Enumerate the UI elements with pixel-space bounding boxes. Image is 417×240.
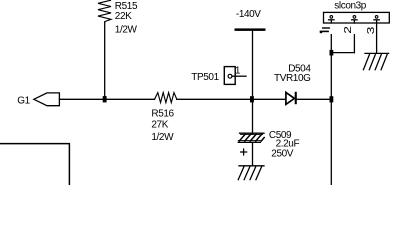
wire R515 to main node xyxy=(104,22,106,99)
svg-text:slcon3p: slcon3p xyxy=(334,1,367,12)
svg-text:TP501: TP501 xyxy=(191,72,219,83)
pin number 1 xyxy=(320,27,330,33)
svg-text:G1: G1 xyxy=(17,96,30,107)
junction dot pin1/pin2 tee xyxy=(330,50,334,56)
pin 2 of slcon3p xyxy=(353,21,355,24)
wire G1 to R516 xyxy=(59,98,154,100)
node G1 off-page connector xyxy=(34,93,60,106)
ground under C509 xyxy=(239,165,264,167)
pin 3 of slcon3p xyxy=(376,21,378,54)
pin number 3 xyxy=(365,26,377,34)
svg-text:1/2W: 1/2W xyxy=(151,132,174,143)
svg-text:-140V: -140V xyxy=(236,9,261,20)
capacitor C509 xyxy=(240,132,265,134)
ground under pin 3 xyxy=(365,52,389,54)
pin 1 of slcon3p xyxy=(330,21,332,24)
wire -140V rail down to main node and C509 xyxy=(252,31,254,133)
resistor R515 xyxy=(98,0,111,22)
junction dot at vertical bus main node xyxy=(330,96,334,102)
wire pin2 down to tee xyxy=(353,35,355,53)
junction dot at -140V/C509 tee xyxy=(250,96,254,102)
wire pin1 down the vertical bus to bottom edge xyxy=(330,35,332,185)
wire tee between pin1 bus and pin2 xyxy=(331,52,354,54)
junction dot at R515 tee xyxy=(103,96,107,102)
svg-text:250V: 250V xyxy=(271,148,293,159)
diode D504 xyxy=(286,92,295,104)
resistor R516 xyxy=(155,93,177,103)
svg-text:22K: 22K xyxy=(115,11,132,22)
svg-text:3: 3 xyxy=(365,26,377,34)
svg-text:TVR10G: TVR10G xyxy=(274,73,311,84)
wire R516 to diode D504 xyxy=(177,98,286,100)
pin number 2 xyxy=(342,26,354,34)
power symbol -140V xyxy=(235,28,266,31)
wire diode to vertical bus xyxy=(297,98,332,100)
polarity plus sign of C509 xyxy=(241,149,247,155)
svg-text:2: 2 xyxy=(342,26,354,34)
partial component box bottom-left xyxy=(0,144,69,185)
wire C509 to ground xyxy=(252,142,254,165)
svg-text:R516: R516 xyxy=(151,108,174,119)
svg-text:1/2W: 1/2W xyxy=(115,25,138,36)
svg-text:1: 1 xyxy=(235,65,241,76)
svg-text:27K: 27K xyxy=(151,120,168,131)
